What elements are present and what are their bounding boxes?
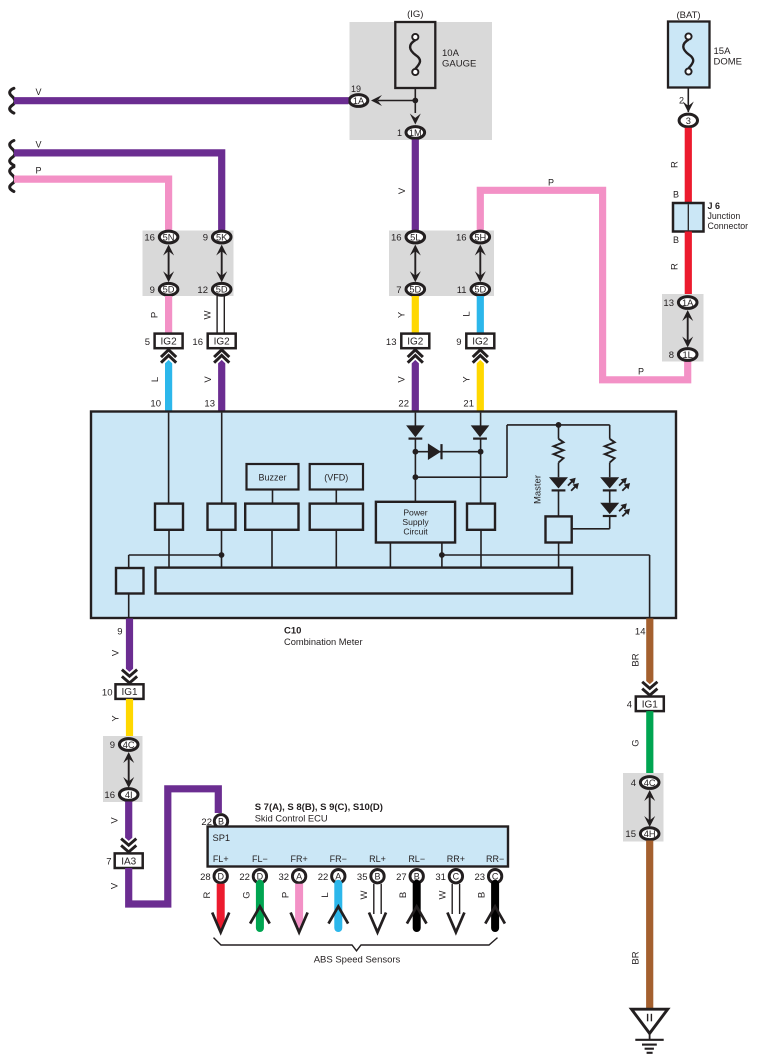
Master switch box — [546, 516, 572, 567]
svg-text:W: W — [203, 310, 214, 319]
svg-text:5D: 5D — [409, 285, 421, 295]
connector C pin 23 (RR-) — [475, 870, 502, 883]
svg-text:13: 13 — [386, 337, 397, 348]
svg-text:1A: 1A — [353, 96, 365, 106]
svg-text:V: V — [110, 817, 121, 824]
svg-text:23: 23 — [475, 872, 486, 883]
resistor right — [605, 425, 615, 477]
wire pin10 internal — [168, 413, 170, 504]
wire BR 4H to ground — [631, 841, 650, 1010]
svg-text:DOME: DOME — [714, 57, 743, 68]
wire P from connector edge to 5N — [10, 166, 169, 232]
diode to pin21 branch — [415, 443, 483, 460]
svg-text:(BAT): (BAT) — [676, 10, 700, 21]
ground II — [632, 1009, 668, 1053]
svg-text:Skid Control ECU: Skid Control ECU — [255, 814, 328, 824]
wire L IG2 to meter pin 10 — [150, 350, 176, 412]
svg-text:5K: 5K — [216, 232, 228, 242]
buzzer driver box — [245, 504, 298, 568]
svg-text:Junction: Junction — [708, 211, 741, 221]
junction IA3 pin 7 — [106, 853, 142, 868]
diode under pin 21 — [471, 413, 490, 504]
svg-text:22: 22 — [239, 872, 250, 883]
fuse 10A GAUGE (IG) — [395, 9, 476, 88]
svg-text:IG2: IG2 — [161, 337, 178, 348]
double arrow 5K-5D — [216, 245, 227, 283]
svg-text:4: 4 — [631, 778, 636, 789]
svg-text:15A: 15A — [714, 46, 732, 57]
svg-text:16: 16 — [144, 233, 155, 244]
connector 1A pin 19 — [349, 84, 382, 106]
svg-text:FL−: FL− — [252, 854, 268, 864]
svg-text:L: L — [320, 892, 331, 897]
junction IG2 pin 5 — [145, 334, 183, 349]
svg-text:9: 9 — [117, 627, 122, 638]
svg-text:BR: BR — [631, 653, 642, 666]
wire R FL+ sensor — [202, 884, 229, 933]
svg-text:RL−: RL− — [408, 854, 425, 864]
connector 4H pin 15 — [625, 828, 659, 840]
connector 5D pin 9 — [150, 283, 178, 295]
svg-text:IA3: IA3 — [121, 856, 136, 867]
connector block 4C/4I shading — [103, 736, 143, 802]
connector 5L pin 16 — [391, 231, 425, 243]
main bus bar — [156, 568, 573, 594]
svg-text:FR−: FR− — [330, 854, 347, 864]
wire L FR- sensor — [320, 884, 348, 928]
double arrow 4C-4I — [123, 752, 134, 788]
svg-text:R: R — [202, 891, 213, 898]
svg-text:A: A — [296, 872, 302, 882]
Buzzer box — [247, 464, 299, 504]
svg-text:V: V — [35, 139, 41, 149]
resistor left — [554, 425, 564, 477]
svg-text:Supply: Supply — [402, 517, 429, 527]
svg-text:Y: Y — [111, 715, 122, 722]
svg-text:10A: 10A — [442, 48, 460, 59]
svg-text:GAUGE: GAUGE — [442, 59, 476, 70]
wire diode to power supply — [413, 439, 419, 502]
svg-text:Combination Meter: Combination Meter — [284, 637, 363, 647]
svg-text:(VFD): (VFD) — [324, 472, 348, 482]
svg-text:R: R — [670, 263, 681, 270]
wire pin13 internal — [221, 413, 223, 504]
connector 1L pin 8 — [669, 349, 697, 361]
svg-text:4: 4 — [627, 700, 632, 711]
connector D pin 28 (FL+) — [200, 870, 227, 883]
svg-text:ABS Speed Sensors: ABS Speed Sensors — [314, 955, 401, 966]
svg-text:9: 9 — [150, 285, 155, 296]
wire fuse output to junction — [378, 88, 418, 113]
svg-text:Y: Y — [462, 376, 473, 383]
svg-text:5D: 5D — [474, 285, 486, 295]
connector 5D pin 11 — [457, 283, 490, 295]
left interface box — [116, 568, 144, 617]
svg-text:J 6: J 6 — [708, 201, 721, 211]
connector 5D pin 7 — [396, 283, 424, 295]
wire Y 5D to IG2 — [397, 296, 416, 335]
svg-text:IG2: IG2 — [214, 337, 231, 348]
connector 5N pin 16 — [144, 231, 178, 243]
svg-text:22: 22 — [398, 399, 409, 410]
wire B RR- sensor — [477, 884, 505, 928]
connector 3 — [679, 114, 697, 127]
svg-text:P: P — [281, 892, 292, 898]
illumination feed wire — [415, 422, 609, 477]
svg-text:(IG): (IG) — [407, 9, 423, 20]
wire L 5D to IG2 — [462, 296, 481, 335]
internal bus left link — [129, 555, 222, 568]
junction connector J6 — [673, 201, 748, 232]
svg-text:L: L — [150, 377, 161, 382]
svg-text:B: B — [673, 235, 679, 245]
svg-text:14: 14 — [635, 627, 646, 638]
svg-text:5L: 5L — [410, 232, 420, 242]
junction IG2 pin 9 — [456, 334, 494, 349]
svg-text:1M: 1M — [409, 128, 422, 138]
svg-text:C10: C10 — [284, 626, 301, 637]
svg-text:Connector: Connector — [708, 221, 749, 231]
svg-text:S 7(A), S 8(B), S 9(C), S10(D): S 7(A), S 8(B), S 9(C), S10(D) — [255, 802, 383, 813]
connector 4I pin 16 — [104, 789, 138, 801]
svg-text:1: 1 — [397, 128, 402, 138]
svg-text:19: 19 — [351, 84, 361, 94]
LED right lower — [572, 503, 630, 529]
svg-text:G: G — [631, 739, 642, 746]
connector 5D pin 12 — [197, 283, 231, 295]
LED left (illumination) — [549, 477, 579, 516]
junction IG2 pin 16 — [192, 334, 235, 349]
svg-text:R: R — [670, 161, 681, 168]
svg-text:RL+: RL+ — [369, 854, 386, 864]
svg-text:FL+: FL+ — [213, 854, 229, 864]
connector block 4C/4H shading — [623, 773, 664, 842]
connector D pin 22 (FL-) — [239, 870, 266, 883]
svg-text:Power: Power — [403, 508, 427, 518]
svg-text:5N: 5N — [163, 232, 175, 242]
connector 5K pin 9 — [203, 231, 231, 243]
svg-text:9: 9 — [203, 233, 208, 244]
wire V meter pin 9 to IG1 — [111, 619, 138, 684]
svg-text:31: 31 — [435, 872, 446, 883]
svg-text:10: 10 — [150, 399, 161, 410]
svg-text:12: 12 — [197, 285, 208, 296]
svg-text:28: 28 — [200, 872, 211, 883]
svg-text:V: V — [397, 376, 408, 383]
svg-text:B: B — [218, 817, 224, 827]
connector 1M pin 1 — [397, 114, 425, 139]
svg-text:V: V — [111, 649, 122, 656]
svg-text:22: 22 — [318, 872, 329, 883]
wire P FR+ sensor — [281, 884, 308, 933]
svg-text:15: 15 — [625, 829, 636, 840]
wire R J6 to 1A — [670, 232, 689, 298]
vfd driver box — [310, 504, 363, 568]
double arrow 5N-5D — [163, 245, 174, 283]
wire R connector 3 to J6 — [670, 128, 689, 203]
double arrow 4C-4H — [644, 790, 655, 827]
Master switch label — [533, 475, 544, 504]
wire V IG2 to meter pin 13 — [203, 350, 229, 412]
svg-text:10: 10 — [102, 688, 113, 699]
driver box 5 — [467, 504, 495, 568]
svg-text:P: P — [548, 177, 554, 187]
junction IG1 pin 4 — [627, 697, 664, 712]
ignition fuse holder shading — [350, 22, 493, 140]
svg-text:4H: 4H — [644, 829, 656, 839]
connector C pin 31 (RR+) — [435, 870, 462, 883]
wire V 4I to IA3 — [110, 802, 137, 853]
svg-text:9: 9 — [456, 337, 461, 348]
connector block 1A/1L shading — [662, 294, 704, 362]
svg-text:W: W — [359, 890, 370, 899]
wire V IG2 to meter pin 22 — [397, 350, 423, 412]
wire P long run from 1L to 5H — [480, 177, 687, 379]
connector 4C pin 4 — [631, 777, 659, 789]
svg-text:1L: 1L — [683, 350, 693, 360]
wire G IG1 to 4C — [631, 711, 650, 777]
connector 4C pin 9 — [110, 739, 138, 751]
wire BR meter pin 14 to IG1 — [631, 619, 658, 696]
svg-text:16: 16 — [192, 337, 203, 348]
wire fuse to connector 3 — [679, 88, 694, 113]
wire B RL- sensor — [398, 884, 426, 928]
connector A pin 22 (FR-) — [318, 870, 345, 883]
wire V from connector edge to 5K — [10, 139, 222, 232]
svg-text:V: V — [110, 882, 121, 889]
diode under pin 22 — [406, 413, 425, 439]
VFD box — [310, 464, 363, 504]
driver box 1 — [155, 504, 183, 568]
svg-text:Buzzer: Buzzer — [258, 472, 286, 482]
skid control ECU title — [255, 802, 383, 824]
svg-text:BR: BR — [631, 951, 642, 964]
svg-text:5D: 5D — [216, 285, 228, 295]
svg-text:16: 16 — [104, 790, 115, 801]
connector B pin 22 — [201, 815, 227, 828]
connector B pin 35 (RL+) — [357, 870, 384, 883]
wire W 5D to IG2 — [203, 296, 225, 335]
svg-text:5: 5 — [145, 337, 150, 348]
ECU C10 Combination Meter box — [91, 412, 676, 648]
connector B pin 27 (RL-) — [396, 870, 423, 883]
connector block 5N/5K to 5D shading — [143, 231, 234, 297]
svg-text:V: V — [397, 187, 408, 194]
svg-text:P: P — [638, 367, 644, 377]
wire V from 1M to 5L — [397, 140, 415, 233]
internal bus right link to pin 14 — [442, 555, 650, 617]
svg-text:Y: Y — [397, 311, 408, 318]
svg-text:13: 13 — [204, 399, 215, 410]
driver box 2 — [208, 504, 236, 568]
double arrow 5L-5D — [410, 245, 421, 283]
connector 1A pin 13 — [663, 297, 697, 309]
svg-text:3: 3 — [686, 116, 691, 126]
svg-text:IG1: IG1 — [121, 687, 138, 698]
wire V to 1A — [10, 87, 349, 113]
svg-text:RR+: RR+ — [447, 854, 465, 864]
svg-text:4I: 4I — [125, 790, 133, 800]
svg-text:2: 2 — [679, 95, 684, 105]
svg-text:FR+: FR+ — [290, 854, 307, 864]
svg-text:8: 8 — [669, 350, 674, 361]
double arrow 1A-1L — [682, 310, 693, 348]
svg-text:11: 11 — [457, 285, 467, 296]
svg-text:V: V — [35, 87, 41, 97]
svg-text:IG1: IG1 — [642, 699, 659, 710]
svg-text:Master: Master — [533, 475, 544, 504]
ABS speed sensors brace — [214, 938, 498, 966]
svg-text:W: W — [437, 890, 448, 899]
wire V IA3 to skid control ECU pin B — [110, 789, 219, 904]
LED right upper — [600, 477, 630, 503]
svg-text:4C: 4C — [123, 740, 135, 750]
svg-text:7: 7 — [106, 857, 111, 868]
svg-text:9: 9 — [110, 740, 115, 751]
svg-text:L: L — [462, 311, 473, 316]
svg-text:G: G — [241, 891, 252, 898]
connector A pin 32 (FR+) — [279, 870, 306, 883]
svg-text:27: 27 — [396, 872, 407, 883]
svg-text:C: C — [453, 872, 460, 882]
svg-text:B: B — [398, 892, 409, 898]
ECU SP1 box — [208, 827, 508, 867]
svg-text:D: D — [217, 872, 224, 882]
wire G FL- sensor — [241, 884, 269, 928]
connector block 5L/5H to 5D shading — [389, 231, 494, 297]
svg-text:V: V — [203, 376, 214, 383]
svg-text:RR−: RR− — [486, 854, 504, 864]
wire W RL+ sensor — [359, 884, 386, 933]
svg-text:21: 21 — [463, 399, 474, 410]
svg-text:7: 7 — [396, 285, 401, 296]
svg-text:Circuit: Circuit — [403, 527, 428, 537]
wire Y IG2 to meter pin 21 — [462, 350, 488, 412]
svg-text:P: P — [150, 312, 161, 318]
svg-text:IG2: IG2 — [472, 337, 489, 348]
svg-text:5D: 5D — [163, 285, 175, 295]
svg-text:5H: 5H — [474, 232, 486, 242]
svg-text:1A: 1A — [682, 298, 694, 308]
svg-text:B: B — [673, 190, 679, 200]
connector 5H pin 16 — [456, 231, 490, 243]
svg-text:13: 13 — [663, 298, 674, 309]
fuse 15A DOME (BAT) — [668, 10, 742, 88]
svg-text:SP1: SP1 — [213, 833, 231, 843]
svg-text:16: 16 — [456, 233, 467, 244]
Power Supply Circuit box — [376, 502, 455, 568]
svg-text:B: B — [374, 872, 380, 882]
wire W RR+ sensor — [437, 884, 464, 933]
wire Y IG1 to 4C — [111, 699, 130, 739]
svg-text:4C: 4C — [644, 778, 656, 788]
svg-text:P: P — [35, 166, 41, 176]
svg-text:IG2: IG2 — [407, 337, 424, 348]
svg-text:B: B — [477, 892, 488, 898]
junction IG2 pin 13 — [386, 334, 429, 349]
svg-text:16: 16 — [391, 233, 402, 244]
svg-text:32: 32 — [279, 872, 290, 883]
double arrow 5H-5D — [475, 245, 486, 283]
junction IG1 pin 10 — [102, 684, 144, 699]
svg-text:35: 35 — [357, 872, 368, 883]
wire P 5D to IG2 — [150, 296, 169, 335]
